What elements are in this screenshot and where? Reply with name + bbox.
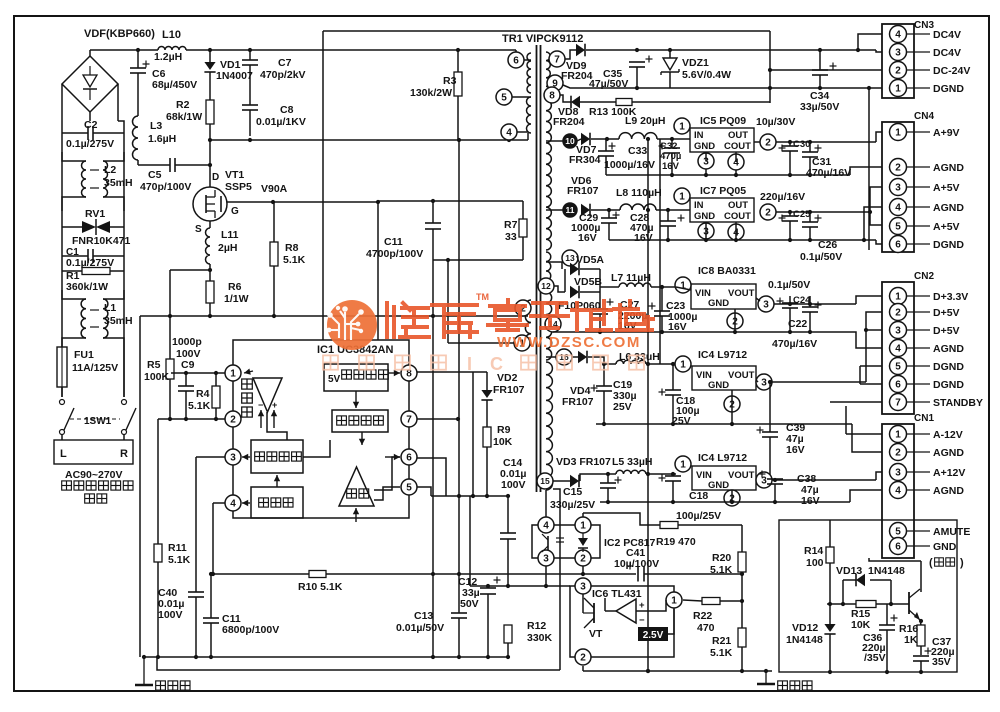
svg-text:1: 1 (680, 281, 686, 292)
svg-text:VOUT: VOUT (728, 370, 755, 381)
junction rail260 (446, 258, 450, 262)
diode VD4 FR107 (578, 351, 587, 364)
svg-text:VT1: VT1 (225, 169, 244, 181)
wire L6 out (646, 363, 676, 365)
capacitor C19 (596, 386, 612, 391)
wire VD5 right node (599, 269, 601, 292)
wire C11b bottom (210, 623, 212, 657)
svg-text:A+12V: A+12V (933, 467, 965, 479)
svg-text:10K: 10K (493, 436, 513, 448)
svg-text:2: 2 (895, 308, 901, 319)
output triangle (339, 467, 374, 506)
capacitor C12 (480, 588, 496, 594)
svg-text:STANDBY: STANDBY (933, 397, 983, 409)
wire rowB to A+5V a (870, 187, 882, 212)
inductor L8 (620, 204, 656, 210)
svg-text:25V: 25V (613, 401, 632, 413)
wire CN2 pin 4 stub (907, 347, 931, 349)
svg-text:5.1K: 5.1K (188, 400, 211, 412)
svg-text:IN: IN (694, 200, 704, 211)
wire x560 up (553, 489, 560, 670)
svg-text:DC4V: DC4V (933, 29, 961, 41)
pin 4 TR1 (501, 124, 517, 140)
svg-text:FR304: FR304 (569, 154, 601, 166)
wire IC8 in (676, 287, 691, 290)
pin4 IC7 (728, 224, 744, 240)
wire R4 bottom (215, 408, 217, 419)
svg-text:5.1K: 5.1K (710, 647, 733, 659)
svg-text:1: 1 (680, 360, 686, 371)
wire pin10 stub (546, 140, 563, 142)
svg-text:C22: C22 (788, 318, 807, 330)
svg-text:L11: L11 (221, 229, 239, 241)
wire vd13 right (870, 579, 891, 581)
svg-text:C7: C7 (278, 57, 292, 69)
svg-text:330K: 330K (527, 632, 553, 644)
wire CN2 pin 6 stub (907, 383, 931, 385)
wire C6 bottom (137, 73, 139, 116)
wire bus x660 (659, 139, 661, 364)
svg-text:L: L (60, 448, 67, 460)
wire pin8 out (560, 95, 571, 102)
junction mute rail (828, 602, 893, 606)
resistor R3 (454, 72, 462, 96)
svg-text:IC7 PQ05: IC7 PQ05 (700, 185, 746, 197)
secondary winding A (546, 52, 550, 95)
primary winding mid (527, 97, 532, 133)
junction gate (271, 200, 380, 204)
svg-text:35mH: 35mH (104, 315, 133, 327)
transistor Q mute (909, 589, 920, 620)
junction R22 (740, 599, 744, 603)
svg-text:10µ/100V: 10µ/100V (614, 558, 659, 570)
wire opto pin3 down (545, 566, 547, 586)
pin 13 TR1 (562, 250, 578, 266)
wire pin16 out (572, 356, 578, 358)
transformer core (536, 45, 538, 492)
capacitor C6 plus (143, 63, 150, 65)
wire pin11 stub (546, 209, 563, 211)
svg-text:4: 4 (895, 486, 901, 497)
CN1 pin 5 (890, 523, 907, 540)
wire gate rail (227, 201, 378, 203)
wire C28 bottom (667, 226, 669, 240)
wire top rail after L10 (186, 49, 516, 51)
resistor R13 (616, 99, 632, 106)
inductor L6 (616, 360, 646, 364)
switch 1SW1 pole L (60, 400, 75, 435)
wire R1 left (62, 270, 82, 272)
transistor VT sym (583, 598, 594, 628)
capacitor C18b (665, 476, 681, 481)
svg-text:10: 10 (565, 136, 575, 146)
inductor L2 winding A (82, 161, 87, 197)
capacitor C29 plus (613, 214, 620, 216)
wire R9 down (486, 447, 488, 496)
svg-text:16V: 16V (801, 495, 820, 507)
wire IC5 pin4 down (735, 152, 737, 162)
svg-text:0.01µ/50V: 0.01µ/50V (396, 622, 444, 634)
wire rail y201 (378, 200, 523, 202)
wire R22 right (720, 600, 742, 602)
wire vd13 left down (842, 580, 844, 604)
wire C12 down (487, 594, 489, 657)
wire C14 down (507, 539, 509, 586)
wire rail373 ext (473, 371, 487, 373)
wire DGND cn2 stubs (860, 365, 882, 367)
capacitor C15 (600, 483, 616, 488)
wire VDZ1 top (669, 50, 671, 58)
svg-text:AMUTE: AMUTE (933, 526, 970, 538)
wire VD12 bottom (829, 634, 831, 672)
wire pin4 to winding (517, 131, 528, 133)
svg-text:AGND: AGND (933, 447, 964, 459)
arrow osc to pwm (274, 475, 280, 487)
wire x170 down (169, 270, 171, 359)
svg-text:GND: GND (933, 541, 957, 553)
wire bus x648 (647, 139, 649, 671)
svg-text:I: I (467, 354, 472, 374)
wire SW R bottom (123, 434, 125, 440)
wire A-12V vert (845, 406, 847, 434)
resistor R14 (826, 547, 834, 563)
wire C40 bottom (195, 597, 197, 657)
watermark dzsc logo and text (323, 292, 653, 374)
CN4 pin 6 (890, 236, 907, 253)
CN4 pin 5 (890, 218, 907, 235)
svg-text:1: 1 (895, 292, 901, 303)
svg-text:G: G (231, 206, 239, 217)
junction top sec rail (635, 48, 860, 52)
svg-text:D: D (212, 172, 219, 183)
pin3 IC4b (756, 472, 772, 488)
svg-text:VDZ1: VDZ1 (682, 57, 709, 69)
junction x459 (456, 417, 460, 421)
resistor R21 (738, 628, 746, 647)
svg-text:470µ/16V: 470µ/16V (772, 338, 817, 350)
junction dgnd (768, 86, 871, 90)
svg-text:4: 4 (895, 203, 901, 214)
pin2 IC2 (575, 550, 591, 566)
svg-text:FR107: FR107 (562, 396, 594, 408)
svg-text:100K: 100K (144, 371, 170, 383)
terminal box L R (54, 440, 133, 464)
junction d5v (864, 328, 868, 332)
wire rail165 right (175, 164, 210, 166)
svg-text:0.1µ/50V: 0.1µ/50V (768, 279, 810, 291)
resistor R2 (206, 100, 214, 124)
wire rowA gnd to AGND (850, 167, 882, 175)
svg-text:C2: C2 (84, 119, 98, 131)
svg-text:R5: R5 (147, 359, 161, 371)
svg-text:FU1: FU1 (74, 349, 94, 361)
wire rail574 (211, 573, 636, 575)
svg-text:S: S (195, 224, 202, 235)
wire C24 bottom (789, 308, 791, 332)
wire VD4 out (588, 357, 616, 364)
wire IC5 out (754, 141, 760, 143)
wire C19 bottom (603, 391, 605, 424)
switch 1SW1 pole R (122, 400, 137, 435)
connector CN2 (882, 282, 914, 414)
opto LED (578, 533, 588, 552)
wire CN2 pin 7 stub (907, 401, 931, 403)
svg-text:1: 1 (580, 521, 586, 532)
wire x213 down (212, 503, 214, 574)
wire x448 vert260 (447, 260, 449, 343)
svg-text:3: 3 (763, 300, 769, 311)
box undervoltage protect (332, 410, 388, 432)
wire R14 top (829, 520, 831, 547)
svg-text:R2: R2 (176, 99, 190, 111)
svg-text:R21: R21 (712, 635, 731, 647)
wire pin2 rail (158, 418, 225, 420)
wire x470 drop (469, 496, 471, 586)
wire R1 right (110, 270, 124, 272)
amplifier triangle (253, 378, 282, 412)
svg-text:2: 2 (895, 448, 901, 459)
wire C25b bottom (809, 227, 811, 240)
svg-text:R6: R6 (228, 281, 242, 293)
svg-text:C11: C11 (384, 236, 403, 248)
box 5V reference (324, 364, 388, 391)
pin1 IC8 (675, 277, 691, 293)
wire IC8 out (756, 298, 760, 301)
arrow 5Vref to UV (353, 391, 359, 408)
wire rowE to A12V (876, 472, 882, 480)
wire R20 bottom (741, 572, 743, 601)
capacitor C29 (601, 218, 617, 223)
wire CN4 pin 1 stub (907, 131, 931, 133)
svg-text:6: 6 (895, 240, 901, 251)
junction q node (919, 619, 923, 623)
wire pin7 to VD9 (565, 50, 576, 59)
pin 6 TR1 (508, 52, 524, 68)
wire C25b top (809, 212, 811, 222)
junction C19 top (602, 362, 606, 366)
wire C18a top (672, 364, 674, 390)
resistor R1 (82, 268, 110, 275)
box PWM (251, 440, 303, 473)
wire C1 left (62, 255, 88, 257)
wire A-12V stub (846, 433, 882, 435)
inductor L7 (619, 283, 651, 287)
capacitor C7 (242, 60, 258, 65)
junction mute bottom (828, 670, 923, 674)
opto transistor (542, 534, 564, 552)
pin2 IC7 (760, 204, 776, 220)
pin 6 IC1 (401, 449, 417, 465)
pin3 IC7 (698, 223, 714, 239)
svg-text:VT: VT (589, 628, 603, 640)
capacitor C27 (592, 309, 608, 314)
wire rail y316 (140, 315, 528, 317)
wire C7 top (249, 50, 251, 60)
svg-text:C18: C18 (689, 490, 708, 502)
diode VD8 FR204 (571, 96, 580, 109)
diode VD13 1N4148 (856, 574, 865, 587)
CN2 pin 6 (890, 376, 907, 393)
wire C22 bottom (809, 312, 811, 332)
junction C35 bot (635, 86, 639, 90)
wire C27 top (599, 292, 601, 309)
svg-text:A+5V: A+5V (933, 221, 960, 233)
diode VD9 FR204 (576, 44, 585, 57)
wire VD3 out (580, 474, 601, 481)
capacitor C22 (802, 307, 818, 312)
wire C36 top (886, 604, 888, 625)
wire amp to pwm (267, 412, 287, 440)
wire tl431 out (636, 600, 666, 611)
label amplifier 2 (242, 393, 253, 403)
wire CN4 pin 2 stub (907, 166, 931, 168)
svg-text:50V: 50V (460, 598, 479, 610)
svg-text:D+3.3V: D+3.3V (933, 291, 968, 303)
svg-text:1: 1 (230, 369, 236, 380)
wire R2 bottom (209, 124, 211, 187)
wire pin1 aux (530, 342, 531, 344)
svg-text:4700p/100V: 4700p/100V (366, 248, 423, 260)
wire pin6 to winding (524, 59, 531, 61)
svg-text:OUT: OUT (728, 130, 748, 141)
capacitor C34 plus (830, 65, 837, 67)
junction VD7 node (605, 137, 609, 141)
svg-text:470: 470 (697, 622, 715, 634)
resistor R19 (660, 522, 678, 529)
wire vd13 left (843, 579, 856, 581)
svg-text:1: 1 (671, 596, 677, 607)
bridge rectifier VDF (62, 56, 118, 112)
svg-text:IC4 L9712: IC4 L9712 (698, 349, 747, 361)
arrow into pin4 (242, 500, 250, 506)
junction rowB gnd (666, 238, 812, 242)
inductor L3 (133, 116, 139, 160)
svg-text:3: 3 (543, 554, 549, 565)
svg-text:L1: L1 (104, 302, 116, 314)
svg-text:GND: GND (708, 298, 729, 309)
wire CN1 pin 2 stub (907, 451, 931, 453)
svg-text:4: 4 (230, 499, 236, 510)
wire x323 vertical (322, 31, 324, 340)
svg-text:R3: R3 (443, 75, 457, 87)
junction C39 (768, 380, 772, 384)
svg-text:WWW.DZSC.COM: WWW.DZSC.COM (497, 334, 641, 351)
CN1 pin 4 (890, 482, 907, 499)
wire VD1 top (209, 50, 211, 62)
wire C9 bottom (185, 391, 187, 419)
pin 8 IC1 (401, 365, 417, 381)
wire R7 bottom (522, 237, 524, 260)
wire rowD gnd rail (596, 423, 852, 425)
transistor VT1 SSP5 (193, 187, 227, 221)
junction C30/C31 top (788, 140, 812, 144)
svg-text:5: 5 (895, 527, 901, 538)
wire rowB gnd rail (609, 239, 876, 241)
arrow into pin1 (244, 369, 253, 375)
svg-text:68µ/450V: 68µ/450V (152, 79, 197, 91)
svg-text:R20: R20 (712, 552, 731, 564)
svg-text:R7: R7 (504, 219, 518, 231)
capacitor C25 (782, 216, 798, 221)
varistor RV1 (82, 219, 110, 235)
CN1 pin 2 (890, 444, 907, 461)
svg-text:R14: R14 (804, 545, 823, 557)
svg-text:3: 3 (761, 378, 767, 389)
svg-text:3: 3 (895, 468, 901, 479)
svg-text:5.1K: 5.1K (283, 254, 306, 266)
svg-text:0.1µ/275V: 0.1µ/275V (66, 138, 114, 150)
label hot ground (156, 681, 190, 690)
wire C30 bottom (789, 151, 791, 175)
wire L2 left top (62, 152, 86, 161)
junction cold gnd (646, 669, 768, 673)
capacitor C24 (782, 303, 798, 308)
wire C39 bottom (769, 437, 771, 480)
wire C27 bottom (599, 314, 601, 332)
svg-text:1000p: 1000p (172, 336, 202, 348)
CN3 pin 4 (890, 26, 907, 43)
capacitor C25 plus (779, 217, 786, 219)
capacitor C18a plus (659, 391, 666, 393)
inductor L5 (616, 470, 646, 474)
capacitor C11 4700p (425, 223, 441, 229)
svg-text:R9: R9 (497, 424, 511, 436)
svg-text:16V: 16V (668, 321, 687, 333)
svg-text:15: 15 (540, 476, 550, 486)
wire CN1 pin 5 stub (907, 530, 931, 532)
svg-text:L3: L3 (150, 120, 162, 132)
arrow to pin6 (385, 454, 400, 460)
wire R4 top (215, 373, 217, 386)
diode VD5A (570, 263, 579, 276)
svg-text:GND: GND (694, 141, 715, 152)
pin1 IC5 (674, 118, 690, 134)
wire IC5 gnd pin3 (705, 169, 707, 175)
capacitor C1 (88, 249, 93, 263)
svg-text:FR107: FR107 (493, 384, 525, 396)
arrow into output tri (353, 508, 359, 522)
svg-text:GND: GND (708, 380, 729, 391)
svg-text:L7 11µH: L7 11µH (611, 272, 651, 284)
wire rowB gnd to DGND (876, 240, 882, 244)
wire to CN3 pin4 (858, 34, 882, 50)
pin 16 TR1 (556, 349, 572, 365)
svg-text:VDF(KBP660): VDF(KBP660) (84, 28, 155, 40)
svg-text:TR1 VIPCK9112: TR1 VIPCK9112 (502, 33, 583, 45)
wire IC7 out2 (776, 211, 870, 213)
wire L9 out (657, 138, 690, 140)
svg-text:VD13: VD13 (836, 565, 862, 577)
wire AGND cn4 pin4 (864, 207, 882, 240)
wire C19 top (603, 364, 605, 386)
wire x487 from top (486, 372, 488, 390)
wire L1 left bot (62, 338, 86, 347)
capacitor C39 (762, 432, 778, 437)
wire VD7 out (591, 138, 619, 140)
pin 14 TR1 (545, 316, 561, 332)
capacitor C33 (598, 151, 614, 156)
svg-text:6: 6 (895, 542, 901, 553)
regulator IC4 L9712 b (692, 466, 756, 490)
svg-text:R4: R4 (196, 388, 210, 400)
junction rail201 (431, 199, 435, 203)
svg-text:5: 5 (895, 222, 901, 233)
capacitor C41 plus (627, 565, 634, 567)
svg-text:OUT: OUT (728, 200, 748, 211)
junction hot gnd (142, 655, 510, 659)
wire CN2 pin 5 stub (907, 365, 931, 367)
svg-text:220µ/16V: 220µ/16V (760, 191, 805, 203)
